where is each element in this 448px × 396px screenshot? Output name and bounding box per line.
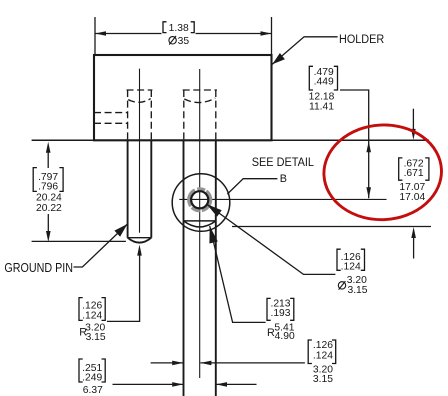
svg-text:3.15: 3.15 — [313, 374, 333, 385]
dimension row pin full width .251: dimension lines with arrows — [113, 382, 257, 387]
detail B label leader — [227, 179, 277, 194]
dimension 1.38 / D35: text — [163, 22, 194, 47]
centerline of ground pin — [139, 69, 141, 233]
leader for ground pin tip radius R3.20 with arrow — [107, 245, 142, 322]
svg-text:6.37: 6.37 — [83, 385, 103, 396]
svg-text:GROUND PIN: GROUND PIN — [4, 261, 73, 275]
cross hole circle — [191, 191, 208, 208]
svg-text:HOLDER: HOLDER — [339, 32, 384, 46]
svg-text:11.41: 11.41 — [309, 101, 334, 112]
dimension .672/.671: lower arrow — [411, 227, 416, 259]
red highlight ellipse — [322, 122, 444, 223]
dimension .797/.796: lower arrow — [46, 214, 51, 242]
svg-text:.671: .671 — [404, 168, 424, 179]
HOLDER label text — [339, 32, 384, 46]
leader for hole diameter D3.20 with arrow — [207, 204, 336, 274]
dimension 1.38 / D35: extension lines — [95, 17, 272, 55]
leader for bore radius R5.41 with arrow — [209, 226, 265, 322]
svg-text:.124: .124 — [341, 261, 361, 272]
center pin internal bore bottom arc — [184, 221, 216, 227]
hidden step on left side of holder (dashed) — [94, 113, 128, 124]
svg-text:1.38: 1.38 — [169, 23, 189, 34]
svg-text:35: 35 — [178, 36, 190, 47]
dimension .479/.449 12.18/11.41: text block — [309, 66, 338, 112]
center pin internal bore bottom chord — [184, 220, 216, 222]
centerline of center pin — [199, 69, 201, 378]
svg-text:.449: .449 — [314, 77, 334, 88]
svg-text:.249: .249 — [82, 373, 102, 384]
svg-text:20.24: 20.24 — [36, 193, 62, 204]
horizontal centerline through cross hole — [179, 198, 386, 200]
svg-text:.124: .124 — [313, 350, 333, 361]
dimension .213/.193 R5.41/4.90: text block — [267, 298, 295, 341]
surface line right of holder — [272, 139, 430, 141]
gray shading ring around cross hole — [189, 189, 211, 211]
dimension .126/.124 R3.20/3.15: text block — [79, 298, 106, 344]
holder block outline — [94, 55, 272, 140]
extension line at bore bottom level (right) — [232, 226, 431, 228]
svg-text:.124: .124 — [82, 310, 102, 321]
dimension .672/.671: upper arrow — [411, 109, 416, 140]
HOLDER label leader with arrow — [272, 37, 337, 65]
svg-text:17.04: 17.04 — [399, 192, 425, 203]
svg-text:.796: .796 — [38, 181, 58, 192]
dimension 1.38 / D35: dimension line with arrows — [95, 31, 272, 36]
detail circle B — [172, 174, 230, 232]
dimension .479 leader and dimension line with arrows — [340, 90, 371, 198]
dimension .672/.671 17.07/17.04: text block — [399, 158, 429, 203]
svg-text:.193: .193 — [270, 308, 290, 319]
svg-text:4.90: 4.90 — [275, 331, 295, 342]
SEE DETAIL text — [252, 155, 314, 169]
center pin body — [184, 140, 216, 396]
extension line at ground pin tip — [32, 240, 126, 242]
dimension .797/.796 20.24/20.22: text block — [33, 168, 63, 215]
svg-text:B: B — [280, 173, 287, 185]
dimension .251/.249 6.37: text block — [79, 359, 105, 396]
dimension .797/.796: upper arrow — [46, 142, 51, 168]
svg-text:3.15: 3.15 — [86, 332, 106, 343]
dimension .126/.124 3.20/3.15 bottom right: text block — [308, 340, 336, 385]
ground pin body — [128, 140, 152, 242]
dimension row pin half width .126: dimension lines with arrows — [151, 361, 305, 366]
svg-text:SEE DETAIL: SEE DETAIL — [252, 155, 314, 169]
hidden hole outline for ground pin (dashed) — [127, 90, 153, 140]
detail B label text — [280, 173, 287, 185]
GROUND PIN label leader with arrow — [74, 224, 128, 267]
GROUND PIN label text — [4, 261, 73, 275]
surface line left of holder — [32, 139, 94, 141]
dimension .126/.124 D3.20/3.15: text block — [337, 249, 368, 296]
svg-text:3.15: 3.15 — [347, 285, 367, 296]
hidden hole outline for center pin (dashed) — [183, 90, 217, 140]
svg-text:20.22: 20.22 — [36, 203, 62, 214]
